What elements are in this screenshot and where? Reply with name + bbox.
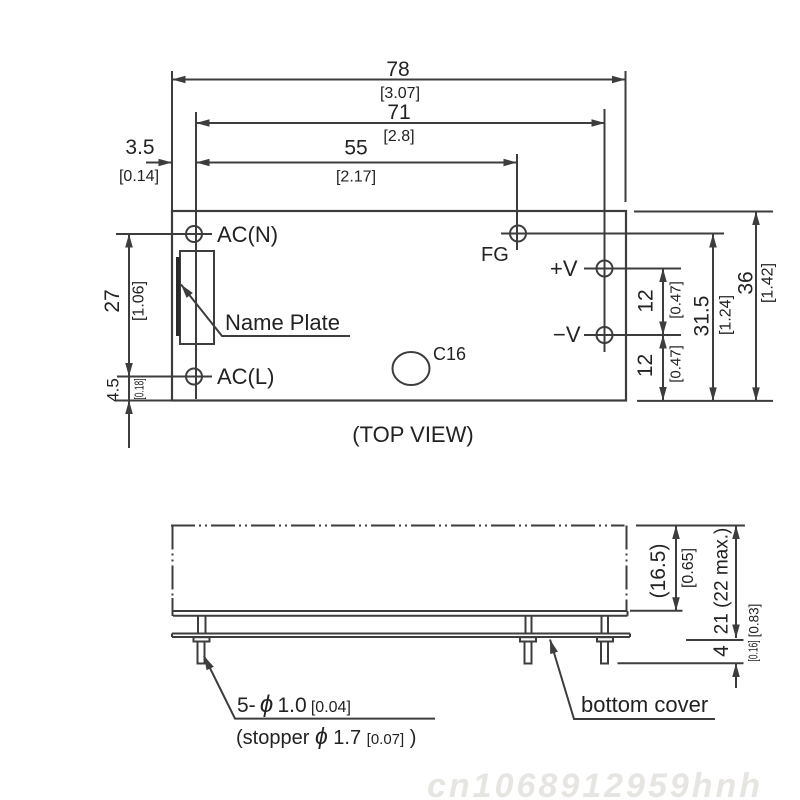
svg-text:12: 12 [634, 354, 657, 377]
svg-text:−V: −V [553, 322, 581, 347]
svg-text:3.5: 3.5 [125, 136, 154, 159]
svg-text:FG: FG [481, 244, 509, 266]
svg-text:21 (22 max.): 21 (22 max.) [712, 528, 733, 635]
svg-text:[0.16]: [0.16] [747, 640, 761, 661]
svg-text:[3.07]: [3.07] [380, 85, 420, 102]
svg-text:[0.65]: [0.65] [680, 548, 697, 588]
svg-text:AC(N): AC(N) [217, 222, 278, 247]
svg-text:cn1068912959hnh: cn1068912959hnh [427, 767, 763, 800]
svg-text:55: 55 [344, 137, 367, 160]
svg-text:[0.14]: [0.14] [119, 168, 159, 185]
svg-text:(16.5): (16.5) [647, 544, 670, 599]
svg-text:5- ϕ 1.0 [0.04]: 5- ϕ 1.0 [0.04] [237, 691, 351, 718]
svg-text:12: 12 [635, 289, 658, 312]
svg-text:[2.17]: [2.17] [336, 169, 376, 186]
svg-text:AC(L): AC(L) [217, 364, 274, 389]
svg-text:[0.83]: [0.83] [747, 604, 762, 638]
svg-text:[0.47]: [0.47] [668, 345, 685, 383]
svg-text:36: 36 [735, 271, 758, 294]
svg-text:[0.47]: [0.47] [668, 281, 685, 319]
svg-text:C16: C16 [433, 344, 466, 364]
svg-text:[1.06]: [1.06] [131, 281, 148, 321]
svg-text:[0.18]: [0.18] [133, 378, 147, 399]
svg-text:(stopper ϕ 1.7 [0.07] ): (stopper ϕ 1.7 [0.07] ) [236, 723, 416, 749]
svg-text:78: 78 [386, 58, 409, 81]
svg-text:71: 71 [387, 101, 410, 124]
svg-text:Name Plate: Name Plate [225, 310, 340, 335]
svg-text:27: 27 [101, 289, 124, 312]
svg-text:4.5: 4.5 [104, 378, 123, 402]
svg-text:bottom cover: bottom cover [581, 692, 708, 717]
svg-text:[1.24]: [1.24] [718, 295, 735, 335]
svg-text:4: 4 [710, 645, 733, 657]
svg-text:(TOP VIEW): (TOP VIEW) [352, 422, 473, 447]
svg-text:[2.8]: [2.8] [383, 128, 414, 145]
svg-text:[1.42]: [1.42] [760, 263, 777, 303]
svg-text:31.5: 31.5 [691, 296, 714, 337]
svg-text:+V: +V [550, 256, 578, 281]
